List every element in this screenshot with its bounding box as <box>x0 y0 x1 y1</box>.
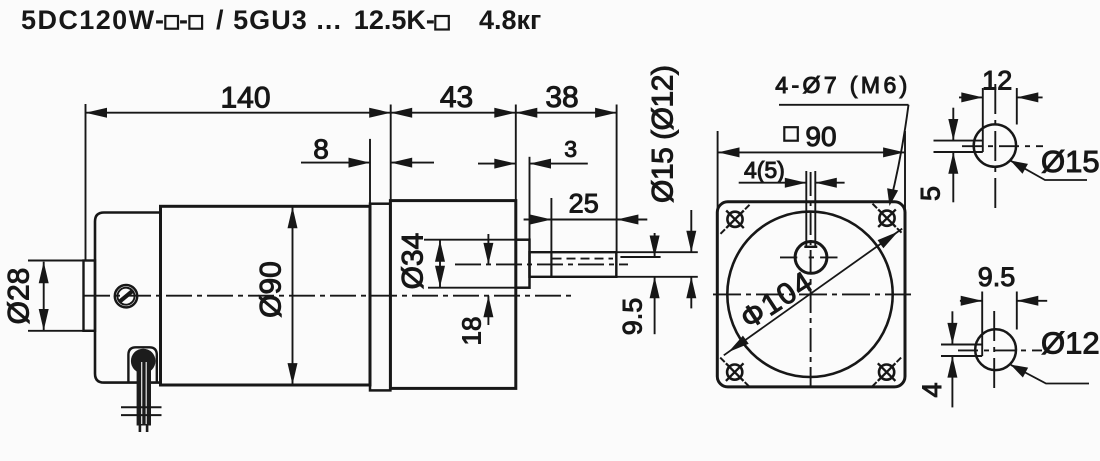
dim F104 diagonal <box>724 229 902 356</box>
section O15 centerlines <box>994 84 996 210</box>
svg-text:4.8кг: 4.8кг <box>479 5 541 35</box>
cable tie lines <box>121 406 162 408</box>
hole bottom-right <box>879 365 894 380</box>
shaft flat hidden line <box>553 258 614 260</box>
svg-text:Ø34: Ø34 <box>397 233 430 290</box>
dim O28 <box>28 260 91 262</box>
cable wire prongs <box>139 426 142 433</box>
dim 4 <box>951 311 953 344</box>
dim O15 (O12) <box>616 251 698 253</box>
hole top-left <box>727 212 742 227</box>
svg-text:Ø15: Ø15 <box>1041 144 1100 179</box>
svg-text:18: 18 <box>457 317 487 346</box>
title text <box>21 5 541 35</box>
dim 4(5) <box>739 182 807 184</box>
screw <box>115 285 137 307</box>
svg-text:9.5: 9.5 <box>617 298 647 336</box>
hole top-right <box>879 211 894 226</box>
dim 18 <box>487 234 489 264</box>
svg-text:3: 3 <box>564 136 577 162</box>
dim 8 <box>369 139 371 204</box>
dim 3 <box>529 157 531 240</box>
dim square90 <box>717 131 719 212</box>
svg-text:38: 38 <box>545 81 578 114</box>
svg-text:43: 43 <box>440 81 473 114</box>
shaft boss O34 <box>516 240 530 288</box>
output axis centerline <box>455 263 628 265</box>
dim O34 <box>424 239 516 241</box>
flange horizontal centerline <box>713 293 911 295</box>
cable grommet <box>131 349 156 374</box>
dim 5 <box>952 108 954 141</box>
section O12 centerlines <box>993 311 995 391</box>
motor body <box>161 206 371 385</box>
section O12 keyway <box>941 344 982 346</box>
svg-text:12.5K-: 12.5K- <box>354 5 435 35</box>
flange plate <box>717 202 905 387</box>
gearbox circle <box>727 212 892 377</box>
shaft circle front <box>795 242 827 274</box>
dim O90 <box>292 207 294 385</box>
cable <box>137 358 151 426</box>
dim 9.5 shaft flat <box>620 256 660 258</box>
dim 9.5 <box>981 292 983 357</box>
svg-text:4-Ø7 (M6): 4-Ø7 (M6) <box>775 72 907 98</box>
cable boot <box>128 347 156 382</box>
svg-text:140: 140 <box>220 82 270 115</box>
svg-text:90: 90 <box>805 121 836 152</box>
section O12 circle <box>975 329 1016 370</box>
dim 25 <box>550 198 552 252</box>
keyway slot lines <box>805 171 807 247</box>
svg-text:9.5: 9.5 <box>978 262 1016 292</box>
dim row 140 43 38 <box>85 104 87 260</box>
svg-text:Ø15 (Ø12): Ø15 (Ø12) <box>647 65 680 203</box>
section O15 keyway <box>934 140 983 142</box>
hole bottom-left <box>727 365 742 380</box>
svg-text:4: 4 <box>917 382 947 397</box>
svg-text:12: 12 <box>982 66 1012 96</box>
rear boss O28 <box>84 261 96 331</box>
output shaft <box>530 252 617 277</box>
svg-text:5DC120W-: 5DC120W- <box>21 5 164 35</box>
svg-text:Ø28: Ø28 <box>3 268 36 325</box>
svg-text:8: 8 <box>313 134 329 165</box>
svg-text:25: 25 <box>569 188 599 218</box>
rear housing <box>95 213 161 383</box>
motor centerline <box>84 295 571 297</box>
svg-text:Ø12: Ø12 <box>1041 326 1100 361</box>
svg-text:5: 5 <box>915 186 945 201</box>
svg-text:-: - <box>179 5 188 35</box>
svg-text:/ 5GU3 ...: / 5GU3 ... <box>216 5 341 35</box>
flange vertical centerline <box>810 172 812 388</box>
section O15 circle <box>974 124 1016 166</box>
shaft circle h ticks <box>780 256 838 258</box>
svg-text:Ø90: Ø90 <box>255 261 288 318</box>
shaft flat start line <box>550 252 552 277</box>
dim 12 <box>982 88 984 152</box>
gearbox body <box>390 201 515 389</box>
svg-text:4(5): 4(5) <box>744 157 785 183</box>
adapter ring <box>370 204 390 391</box>
